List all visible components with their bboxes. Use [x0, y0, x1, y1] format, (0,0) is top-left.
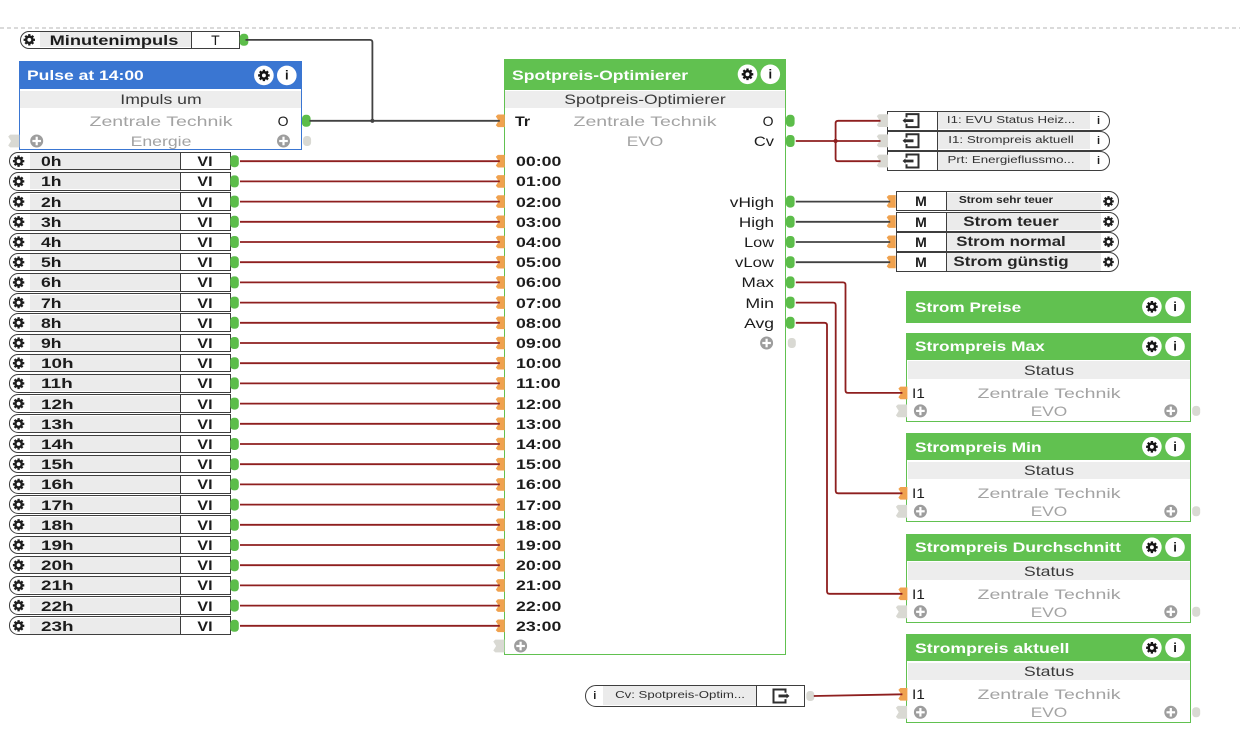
output label Avg: [744, 315, 774, 331]
Spotpreis input tab 11:00: [496, 377, 505, 390]
Strompreis Min body: [906, 460, 1191, 522]
memory pin label M 3: [915, 254, 927, 270]
Cv reference i glyph: [593, 688, 596, 704]
Pulse gear icon: [254, 66, 274, 86]
Strompreis aktuell right gray tab: [1192, 707, 1200, 717]
input block 22h body: [9, 596, 231, 615]
2h VI separator: [180, 192, 181, 211]
14h VI separator: [180, 435, 181, 454]
Pulse right gray tab: [303, 136, 311, 146]
12h gear icon: [13, 398, 24, 409]
Spotpreis output plus icon: [760, 337, 773, 350]
wire 13h VI to 13:00: [240, 423, 500, 425]
memory block Strom günstig label area: [946, 253, 1101, 270]
Strompreis Min info icon: [1165, 437, 1185, 457]
reference label Prt: Energieflussmo...: [947, 153, 1074, 169]
10h gear icon: [13, 358, 24, 369]
12h VI separator: [180, 394, 181, 413]
input label 09:00: [516, 335, 561, 351]
pin label T: [211, 32, 220, 48]
Spotpreis output dot vLow: [786, 256, 795, 268]
input block Minutenimpuls body: [20, 31, 240, 49]
Strompreis Durchschnitt band Status: [908, 562, 1190, 580]
output label Max: [741, 274, 773, 290]
Spotpreis output dot O: [786, 115, 795, 127]
label 23h: [41, 618, 74, 634]
18h output dot VI: [230, 519, 239, 531]
12h output dot VI: [230, 398, 239, 410]
23h label area: [30, 618, 180, 634]
title Spotpreis-Optimierer: [512, 67, 688, 83]
pin label VI 6h: [197, 274, 212, 290]
pin label VI 8h: [197, 315, 212, 331]
Spotpreis input tab 12:00: [496, 397, 505, 410]
reference label I1: EVU Status Heiz...: [947, 113, 1075, 129]
wire output to M3: [796, 241, 890, 243]
Spotpreis input tab 09:00: [496, 337, 505, 350]
Strompreis Min gear icon: [1142, 437, 1162, 457]
wire T to junction: [246, 40, 373, 121]
label 4h: [41, 234, 62, 250]
memory block Strom sehr teuer input tab: [887, 195, 896, 208]
label 20h: [41, 557, 74, 573]
13h output dot VI: [230, 418, 239, 430]
7h label area: [30, 295, 180, 311]
memory block Strom teuer separator: [946, 212, 947, 232]
8h label area: [30, 315, 180, 331]
19h output dot VI: [230, 539, 239, 551]
16h output dot VI: [230, 478, 239, 490]
3h label area: [30, 214, 180, 230]
17h label area: [30, 497, 180, 513]
Strompreis Max input tab I1: [898, 387, 907, 400]
11h label area: [30, 375, 180, 391]
pin label VI 11h: [197, 375, 212, 391]
input block 10h body: [9, 354, 231, 373]
12h label area: [30, 396, 180, 412]
Spotpreis input tab 08:00: [496, 317, 505, 330]
13h gear icon: [13, 418, 24, 429]
band text Impuls um: [120, 91, 201, 107]
pin label VI 10h: [197, 355, 212, 371]
wire 18h VI to 18:00: [240, 524, 500, 526]
Spotpreis input tab 17:00: [496, 498, 505, 511]
Strompreis aktuell info icon: [1165, 638, 1185, 658]
20h gear icon: [13, 560, 24, 571]
memory block Strom normal label area: [946, 233, 1101, 250]
18h VI separator: [180, 515, 181, 534]
Spotpreis output gray tab: [788, 338, 796, 348]
label 9h: [41, 335, 62, 351]
3h VI separator: [180, 213, 181, 232]
Strompreis Max input label I1: [912, 385, 925, 401]
input block 12h body: [9, 394, 231, 413]
13h VI separator: [180, 414, 181, 433]
reference block Prt: Energieflussmo... label area: [937, 152, 1090, 169]
title Strom Preise: [915, 299, 1021, 315]
function block Strompreis Max header: [906, 333, 1191, 360]
input label 11:00: [516, 375, 561, 391]
Strompreis Durchschnitt body: [906, 561, 1191, 623]
wire 12h VI to 12:00: [240, 403, 500, 405]
wire 10h VI to 10:00: [240, 362, 500, 364]
input block 13h body: [9, 414, 231, 433]
label 19h: [41, 537, 74, 553]
22h VI separator: [180, 596, 181, 615]
Pulse block body: [19, 89, 303, 149]
memory block Strom teuer gear icon: [1103, 216, 1114, 227]
output label Cv: [753, 133, 773, 149]
Strompreis Max right gray tab: [1192, 406, 1200, 416]
reference block Prt: Energieflussmo... i glyph: [1097, 153, 1100, 169]
input label 06:00: [516, 274, 561, 290]
memory block Strom günstig gear icon: [1103, 257, 1114, 268]
reference block Prt: Energieflussmo... input icon: [907, 155, 919, 168]
Minutenimpuls output dot T: [240, 34, 249, 46]
label 10h: [41, 355, 74, 371]
15h output dot VI: [230, 458, 239, 470]
input block 5h body: [9, 253, 231, 272]
Spotpreis input tab 15:00: [496, 458, 505, 471]
input label 05:00: [516, 254, 561, 270]
4h output dot VI: [230, 236, 239, 248]
reference label I1: Strompreis aktuell: [948, 133, 1073, 149]
junction dot Cv: [834, 139, 838, 143]
memory block Strom normal input tab: [887, 236, 896, 249]
23h output dot VI: [230, 620, 239, 632]
Pulse info icon: [277, 66, 297, 86]
5h gear icon: [13, 257, 24, 268]
Strompreis Min plus icon left: [914, 505, 927, 518]
title Strompreis Min: [915, 439, 1042, 455]
memory label Strom normal: [956, 234, 1065, 250]
Pulse output dot O: [302, 115, 311, 127]
input label 19:00: [516, 537, 561, 553]
label 11h: [41, 375, 73, 391]
reference block I1: Strompreis aktuell i glyph: [1097, 133, 1100, 149]
18h gear icon: [13, 519, 24, 530]
9h label area: [30, 335, 180, 351]
6h output dot VI: [230, 276, 239, 288]
7h output dot VI: [230, 297, 239, 309]
pin label VI 7h: [197, 295, 212, 311]
input block 2h body: [9, 192, 231, 211]
wire Min to Strompreis Min I1: [796, 303, 903, 494]
input block 0h body: [9, 152, 231, 171]
memory block Strom günstig body: [896, 252, 1119, 272]
8h gear icon: [13, 317, 24, 328]
14h label area: [30, 436, 180, 452]
21h label area: [30, 577, 180, 593]
Spotpreis band text: [564, 91, 725, 107]
input block 23h body: [9, 616, 231, 635]
5h VI separator: [180, 253, 181, 272]
Strompreis Min input tab I1: [898, 487, 907, 500]
Strompreis aktuell band Status: [908, 663, 1190, 681]
reference block I1: EVU Status Heiz... input icon: [907, 114, 919, 127]
0h label area: [30, 153, 180, 169]
Strompreis aktuell gear icon: [1142, 638, 1162, 658]
Spotpreis input tab 00:00: [496, 155, 505, 168]
Strompreis Durchschnitt row Zentrale Technik: [977, 586, 1120, 602]
Strompreis Max plus icon left: [914, 404, 927, 417]
Strompreis Max info icon: [1165, 337, 1185, 357]
wire 2h VI to 02:00: [240, 201, 500, 203]
label 21h: [41, 577, 74, 593]
pin label VI 9h: [197, 335, 212, 351]
Spotpreis output dot Max: [786, 276, 795, 288]
17h VI separator: [180, 495, 181, 514]
output label Low: [744, 234, 774, 250]
22h output dot VI: [230, 600, 239, 612]
reference block I1: EVU Status Heiz... body: [887, 111, 1110, 131]
Spotpreis output dot vHigh: [786, 196, 795, 208]
Cv reference gray tab: [806, 691, 814, 701]
Strompreis Durchschnitt gear icon: [1142, 538, 1162, 558]
17h output dot VI: [230, 499, 239, 511]
reference block Prt: Energieflussmo... body: [887, 151, 1110, 171]
Spotpreis input tab 07:00: [496, 296, 505, 309]
output label vHigh: [729, 194, 773, 210]
pin label VI 18h: [197, 517, 212, 533]
memory block Strom teuer body: [896, 212, 1119, 232]
Spotpreis band: [505, 91, 785, 109]
wire 16h VI to 16:00: [240, 483, 500, 485]
wire O to Tr: [310, 120, 500, 122]
input label 01:00: [516, 173, 561, 189]
memory label Strom teuer: [963, 214, 1059, 230]
9h VI separator: [180, 334, 181, 353]
input label 17:00: [516, 497, 561, 513]
Pulse row Zentrale Technik: [89, 113, 232, 129]
label 22h: [41, 598, 74, 614]
wire 14h VI to 14:00: [240, 443, 500, 445]
7h gear icon: [13, 297, 24, 308]
11h VI separator: [180, 374, 181, 393]
wire 0h VI to 00:00: [240, 160, 500, 162]
Spotpreis output dot Min: [786, 297, 795, 309]
memory block Strom teuer label area: [946, 213, 1101, 230]
input label 16:00: [516, 476, 561, 492]
21h output dot VI: [230, 579, 239, 591]
Spotpreis bottom plus icon: [514, 640, 527, 653]
5h output dot VI: [230, 256, 239, 268]
input label 21:00: [516, 577, 561, 593]
pin label VI 3h: [197, 214, 212, 230]
Spotpreis output dot Avg: [786, 317, 795, 329]
label 16h: [41, 476, 74, 492]
function block Spotpreis-Optimierer header: [504, 59, 787, 90]
pin label VI 16h: [197, 476, 212, 492]
Minutenimpuls label area: [40, 32, 191, 47]
Strompreis Min row Zentrale Technik: [977, 485, 1120, 501]
pin label VI 12h: [197, 396, 212, 412]
Spotpreis input tab 18:00: [496, 519, 505, 532]
wire 1h VI to 01:00: [240, 180, 500, 182]
input label 00:00: [516, 153, 561, 169]
input label 08:00: [516, 315, 561, 331]
Pulse band Impuls um: [20, 91, 301, 109]
Minutenimpuls T cell separator: [191, 31, 192, 49]
Pulse left gray tab: [8, 135, 19, 148]
reference block I1: EVU Status Heiz... gray tab: [877, 114, 888, 127]
Strompreis aktuell band text Status: [1024, 663, 1074, 679]
Spotpreis input tab 03:00: [496, 216, 505, 229]
memory block Strom normal gear icon: [1103, 237, 1114, 248]
4h label area: [30, 234, 180, 250]
label 12h: [41, 396, 74, 412]
pin label VI 1h: [197, 173, 212, 189]
input block 11h body: [9, 374, 231, 393]
reference block I1: EVU Status Heiz... i glyph: [1097, 113, 1100, 129]
22h gear icon: [13, 600, 24, 611]
16h label area: [30, 476, 180, 492]
Strom Preise info icon: [1165, 297, 1185, 317]
0h VI separator: [180, 152, 181, 171]
Pulse plus icon left: [30, 135, 43, 148]
Strom Preise gear icon: [1142, 297, 1162, 317]
9h output dot VI: [230, 337, 239, 349]
label 14h: [41, 436, 74, 452]
label 7h: [41, 295, 62, 311]
14h gear icon: [13, 438, 24, 449]
wire 22h VI to 22:00: [240, 605, 500, 607]
wire 23h VI to 23:00: [240, 625, 500, 627]
9h gear icon: [13, 337, 24, 348]
reference block Prt: Energieflussmo... separator: [937, 151, 938, 171]
pin label VI 5h: [197, 254, 212, 270]
input label 22:00: [516, 598, 561, 614]
1h VI separator: [180, 172, 181, 191]
Pulse row Energie: [130, 133, 191, 149]
11h output dot VI: [230, 377, 239, 389]
Strompreis Min row EVO: [1031, 503, 1068, 519]
Pulse plus icon right: [277, 135, 290, 148]
pin label VI 0h: [197, 153, 212, 169]
page separator dotted line: [0, 27, 1240, 29]
input block 16h body: [9, 475, 231, 494]
Minutenimpuls gear icon: [24, 34, 35, 45]
pin label VI 22h: [197, 598, 212, 614]
function block Strompreis Min header: [906, 433, 1191, 460]
Strompreis Max band text Status: [1024, 362, 1074, 378]
memory block Strom sehr teuer label area: [946, 193, 1101, 210]
memory block Strom normal separator: [946, 232, 947, 252]
memory block Strom teuer input tab: [887, 215, 896, 228]
pin label VI 19h: [197, 537, 212, 553]
title Strompreis aktuell: [915, 640, 1069, 656]
Spotpreis output dot Cv: [786, 135, 795, 147]
Strompreis Min left gray tab: [896, 505, 907, 518]
20h output dot VI: [230, 559, 239, 571]
6h label area: [30, 274, 180, 290]
Spotpreis output dot High: [786, 216, 795, 228]
Strompreis Max left gray tab: [896, 405, 907, 418]
23h VI separator: [180, 616, 181, 635]
input label 03:00: [516, 214, 561, 230]
Spotpreis gear icon: [738, 65, 758, 85]
20h VI separator: [180, 556, 181, 575]
Strompreis Durchschnitt input tab I1: [898, 588, 907, 601]
wire output to M1: [796, 201, 890, 203]
input label 13:00: [516, 416, 561, 432]
group block Strom Preise header: [906, 291, 1191, 323]
wire 17h VI to 17:00: [240, 504, 500, 506]
reference block I1: Strompreis aktuell input icon: [907, 134, 919, 147]
input block 7h body: [9, 293, 231, 312]
input label 18:00: [516, 517, 561, 533]
wire 21h VI to 21:00: [240, 584, 500, 586]
wire output to M4: [796, 261, 890, 263]
Strompreis Durchschnitt band text Status: [1024, 563, 1074, 579]
reference block I1: Strompreis aktuell gray tab: [877, 134, 888, 147]
18h label area: [30, 517, 180, 533]
15h VI separator: [180, 455, 181, 474]
10h output dot VI: [230, 357, 239, 369]
2h output dot VI: [230, 196, 239, 208]
label 3h: [41, 214, 62, 230]
wire 11h VI to 11:00: [240, 382, 500, 384]
memory block Strom normal body: [896, 232, 1119, 252]
memory label Strom günstig: [953, 254, 1068, 270]
Strompreis aktuell plus icon left: [914, 706, 927, 719]
17h gear icon: [13, 499, 24, 510]
input block 3h body: [9, 213, 231, 232]
function block Pulse at 14:00 header: [19, 61, 303, 89]
Strompreis Durchschnitt left gray tab: [896, 605, 907, 618]
Strompreis Min plus icon right: [1164, 505, 1177, 518]
Spotpreis input tab 22:00: [496, 599, 505, 612]
Strompreis Max plus icon right: [1164, 404, 1177, 417]
wire 8h VI to 08:00: [240, 322, 500, 324]
pin label VI 14h: [197, 436, 212, 452]
Spotpreis input tab 04:00: [496, 236, 505, 249]
22h label area: [30, 598, 180, 614]
6h gear icon: [13, 277, 24, 288]
junction dot T/O: [370, 119, 374, 123]
1h output dot VI: [230, 175, 239, 187]
Spotpreis input tab 20:00: [496, 559, 505, 572]
wire Avg to Strompreis Durchschnitt I1: [796, 323, 903, 594]
Spotpreis input tab 14:00: [496, 438, 505, 451]
title Pulse at 14:00: [27, 67, 144, 83]
output label vLow: [735, 254, 774, 270]
4h VI separator: [180, 233, 181, 252]
label 8h: [41, 315, 62, 331]
memory pin label M 2: [915, 234, 927, 250]
Cv reference output icon: [774, 689, 786, 702]
0h gear icon: [13, 156, 24, 167]
10h VI separator: [180, 354, 181, 373]
output label O: [763, 113, 774, 129]
wire 7h VI to 07:00: [240, 302, 500, 304]
output reference block Cv body: [585, 685, 806, 707]
14h output dot VI: [230, 438, 239, 450]
reference block I1: Strompreis aktuell separator: [937, 131, 938, 151]
Spotpreis row Zentrale Technik: [574, 113, 717, 129]
Cv reference label: [615, 688, 745, 704]
Strompreis Durchschnitt info icon: [1165, 538, 1185, 558]
input label Tr: [515, 113, 530, 129]
Spotpreis input tab 13:00: [496, 418, 505, 431]
10h label area: [30, 355, 180, 371]
4h gear icon: [13, 236, 24, 247]
label 13h: [41, 416, 74, 432]
input block 19h body: [9, 536, 231, 555]
Spotpreis input tab 01:00: [496, 175, 505, 188]
Strompreis Max gear icon: [1142, 337, 1162, 357]
Strompreis Durchschnitt plus icon left: [914, 605, 927, 618]
